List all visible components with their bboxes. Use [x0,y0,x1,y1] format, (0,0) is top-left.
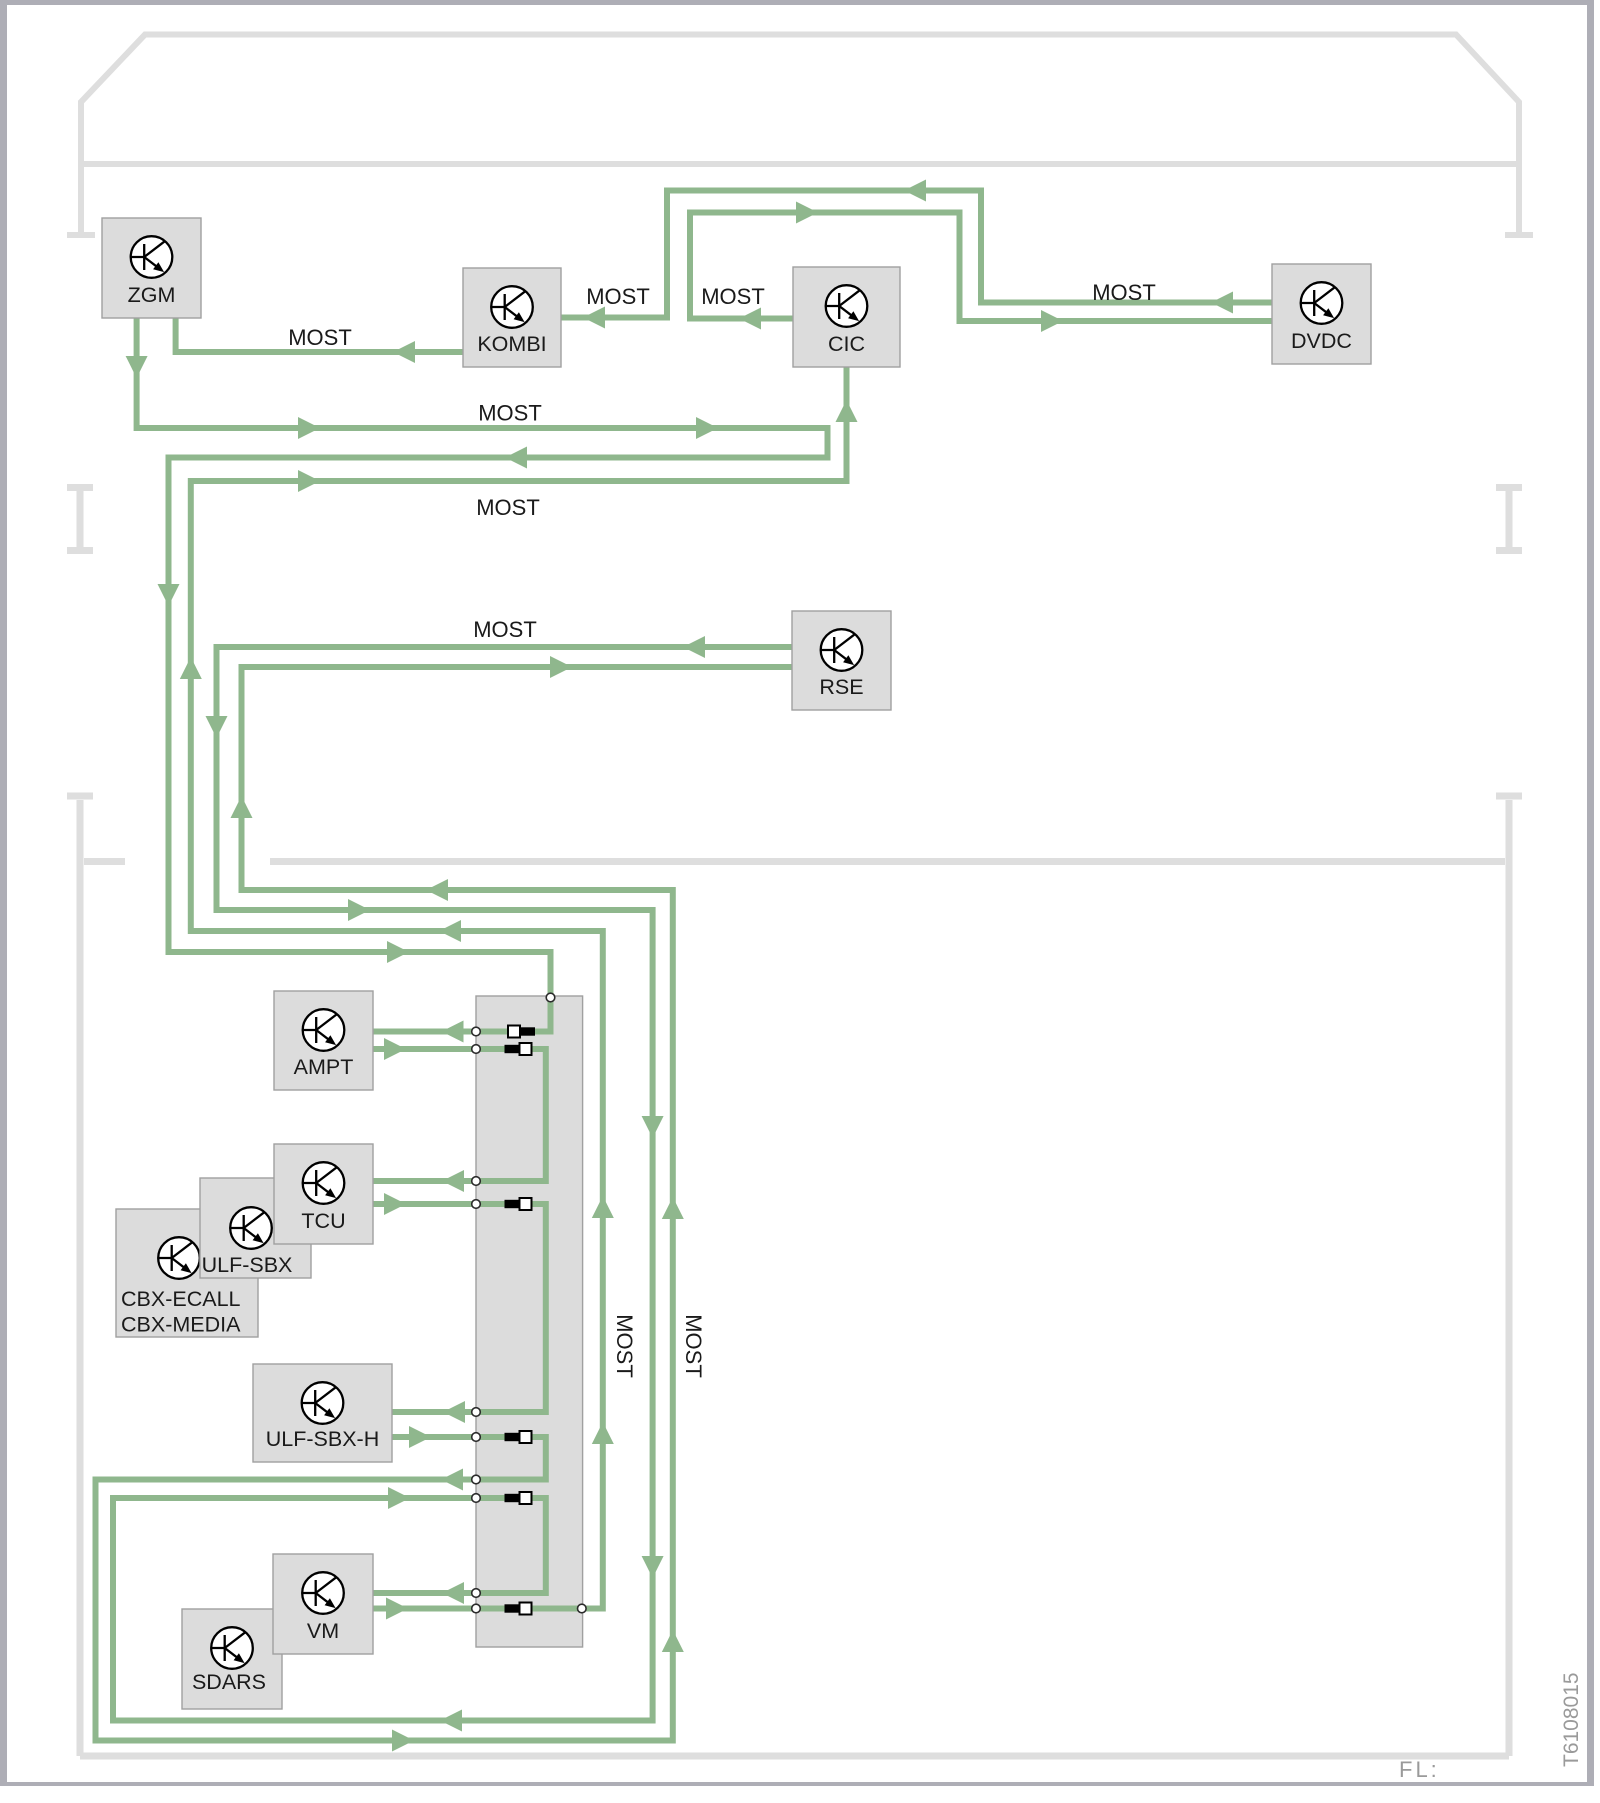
arrow left on return run [505,447,527,469]
svg-text:FL:: FL: [1399,1757,1440,1782]
svg-text:MOST: MOST [288,325,352,350]
arrow down on left drop [158,584,180,606]
svg-text:MOST: MOST [478,401,542,426]
arrow left into VM [442,1582,464,1604]
arrow down on ZGM output [126,356,148,378]
ECU box KOMBI [463,268,561,367]
arrow left into ULF-SBX-H [443,1401,465,1423]
svg-text:CBX-MEDIA: CBX-MEDIA [121,1313,241,1337]
wire ULF-SBX-H out to RSE in [96,667,793,1741]
arrow right into distribution box top feed [387,941,409,963]
splice point box right [578,1604,587,1613]
arrow up on VM riser lower [592,1422,614,1444]
arrow left toward RSE riser [426,879,448,901]
arrow left from RSE [683,636,705,658]
wire AMPT out to TCU in [373,1049,546,1181]
svg-text:MOST: MOST [701,284,765,309]
svg-text:T6108015: T6108015 [1560,1672,1583,1767]
arrow up into RSE feed [231,796,253,818]
splice point VM in [472,1589,481,1598]
splice point box top [546,993,555,1002]
arrow right on ZGM run 2 [696,417,718,439]
arrow right from VM [386,1598,408,1620]
ECU box ZGM [102,218,201,318]
arrow up on CIC feed riser [180,657,202,679]
splice point AMPT out [472,1045,481,1054]
arrow left on ULF-SBX-H return [441,1469,463,1491]
arrow right into RSE [550,656,572,678]
svg-text:MOST: MOST [681,1314,706,1378]
connector at VM feed [505,1494,519,1502]
svg-text:ZGM: ZGM [128,283,176,307]
ECU box SDARS [182,1609,282,1709]
car body B-pillar marks [67,488,1522,551]
arrow right on CIC-DVDC run [796,202,818,224]
arrow left into TCU [442,1170,464,1192]
arrow left from DVDC [1211,292,1233,314]
outer frame border [0,0,1594,5]
connector at ULF-SBX-H output [505,1433,519,1441]
svg-text:DVDC: DVDC [1291,329,1352,353]
arrow right on ZGM run 1 [298,417,320,439]
arrow left on bottom return [440,1710,462,1732]
arrow up on VM riser upper [592,1196,614,1218]
svg-text:CIC: CIC [828,332,865,356]
ECU box CBX-ECALL / CBX-MEDIA [116,1209,258,1337]
svg-text:MOST: MOST [476,495,540,520]
ECU box AMPT [274,991,373,1090]
wire VM out to CIC in [191,367,847,1609]
ECU box DVDC [1272,264,1371,364]
splice point VM out [472,1604,481,1613]
ECU box ULF-SBX [200,1178,311,1278]
ECU box RSE [792,611,891,710]
wire ZGM out to AMPT in [137,318,828,1032]
connector at AMPT input [508,1026,520,1038]
connector at VM output [505,1604,519,1612]
arrow up on right riser 1 upper [662,1197,684,1219]
svg-text:ULF-SBX: ULF-SBX [202,1253,293,1277]
ECU box ULF-SBX-H [253,1364,392,1462]
svg-text:ULF-SBX-H: ULF-SBX-H [266,1427,379,1451]
arrow right from ULF-SBX-H [409,1426,431,1448]
svg-text:MOST: MOST [473,617,537,642]
wire CIC out to DVDC in [690,213,1272,322]
arrow right from AMPT [384,1038,406,1060]
svg-text:SDARS: SDARS [192,1670,266,1694]
splice point TCU in [472,1177,481,1186]
svg-text:KOMBI: KOMBI [477,332,546,356]
splice point AMPT in [472,1027,481,1036]
arrow left from CIC [739,308,761,330]
fiber-optic distribution box [476,996,583,1647]
splice point TCU out [472,1200,481,1209]
wire DVDC out to KOMBI in [561,191,1272,318]
wire RSE out to VM in [113,647,792,1721]
svg-text:MOST: MOST [1092,280,1156,305]
splice point VM feed [472,1494,481,1503]
arrow left on DVDC-KOMBI run [904,180,926,202]
ECU box VM [273,1554,373,1654]
svg-text:TCU: TCU [301,1209,345,1233]
arrow left into AMPT [442,1021,464,1043]
connector at AMPT output [505,1045,519,1053]
arrow right on bottom run [392,1730,414,1752]
connector at TCU output [505,1200,519,1208]
svg-text:MOST: MOST [586,284,650,309]
wire KOMBI out to ZGM in [176,318,463,352]
ECU box CIC [793,267,900,367]
svg-text:CBX-ECALL: CBX-ECALL [121,1287,241,1311]
svg-text:RSE: RSE [819,675,863,699]
arrow right from TCU [384,1193,406,1215]
svg-text:MOST: MOST [612,1314,637,1378]
arrow up into CIC [836,400,858,422]
splice point ULF-SBX-H in [472,1408,481,1417]
arrow down on right drop lower [642,1556,664,1578]
svg-text:VM: VM [307,1619,339,1643]
arrow down on right drop upper [642,1116,664,1138]
arrow left into ZGM [393,341,415,363]
wire TCU out to ULF-SBX-H in [373,1204,546,1412]
car body outline (roof / windshield) [67,35,1533,236]
arrow right into distribution box feed [388,1487,410,1509]
ECU box TCU [274,1144,373,1244]
arrow left into KOMBI [583,307,605,329]
arrow down on RSE output drop [206,716,228,738]
splice point return [472,1475,481,1484]
car body rear side and bottom [67,796,1522,1756]
svg-text:AMPT: AMPT [294,1055,354,1079]
arrow up on right riser 1 lower [662,1630,684,1652]
arrow right on RSE run [348,899,370,921]
splice point ULF-SBX-H out [472,1433,481,1442]
arrow right into DVDC [1041,310,1063,332]
arrow right on CIC feed run [298,470,320,492]
arrow left on CIC return run [439,920,461,942]
